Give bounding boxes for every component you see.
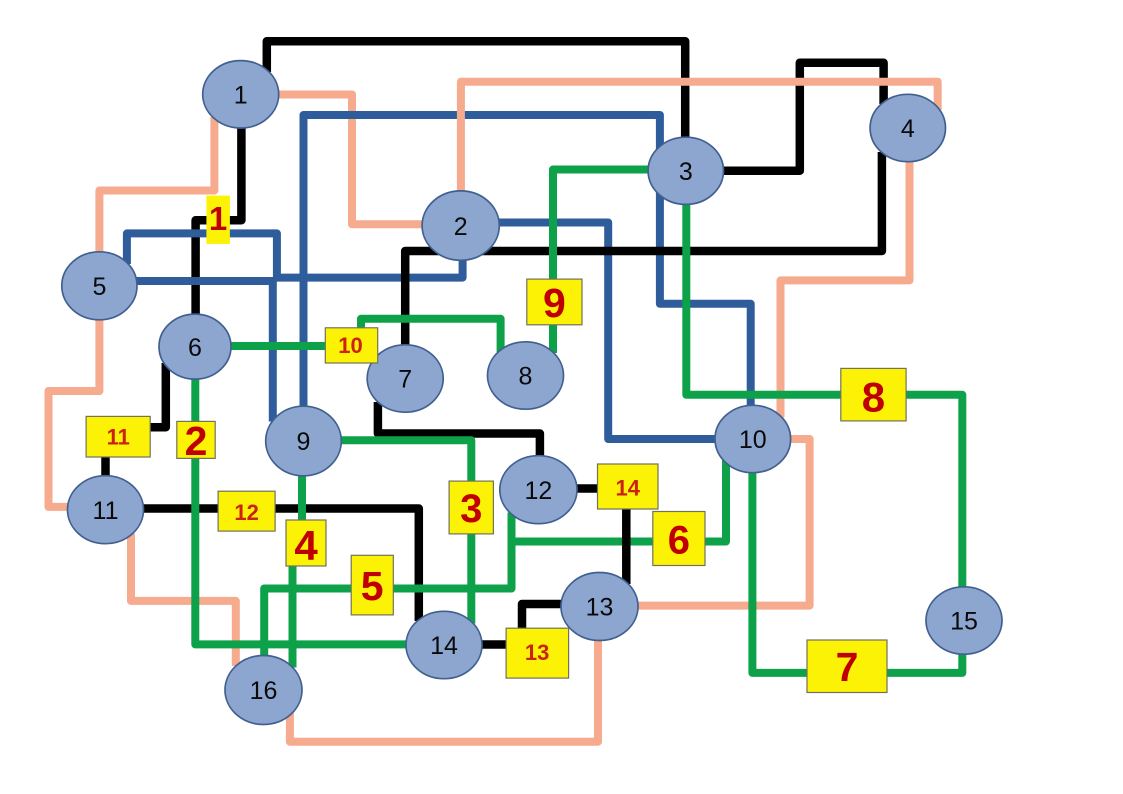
svg-text:10: 10 [338,333,362,358]
wire edge 10-15 green via label 7 [752,471,962,673]
wire edge 13-10 pink [637,439,810,606]
svg-text:9: 9 [543,280,566,326]
wire edge 6-11 black via label 11 [106,363,166,477]
label box 3 [449,481,493,534]
wire edge 12-10 green via label 6 [512,460,727,542]
label box 13 [506,628,568,678]
wire edge 7-12 black [378,402,540,458]
wire edge 16-13 pink [290,640,598,742]
wire edge 14-13 black via label 13 [481,604,563,645]
svg-text:7: 7 [398,366,412,394]
label box 5 [351,555,393,615]
svg-text:15: 15 [950,608,978,636]
svg-text:6: 6 [188,334,202,362]
label box 8 [841,368,906,421]
svg-text:12: 12 [524,477,552,505]
svg-text:10: 10 [739,426,767,454]
wire edge 2-10 blue [498,223,716,440]
wire edge 1-3 black [267,41,685,139]
label box 7 [807,640,887,693]
wire edge 11-14 black via label 12 [143,509,419,622]
svg-text:16: 16 [250,677,278,705]
wire edge 5-9 blue [136,281,273,422]
wire edge 3-4 black [724,63,884,171]
svg-text:4: 4 [901,115,915,143]
wire edge 11-16 pink [131,534,236,667]
node 9 [266,406,342,476]
svg-text:2: 2 [185,418,208,464]
node 16 [225,656,302,725]
wire edge 6-7 green via label 10 [230,342,376,350]
node 14 [406,611,482,678]
label box 6 [653,512,705,566]
svg-text:5: 5 [361,563,384,609]
wire edge 12-13 black via label 14 [575,489,626,585]
svg-text:14: 14 [430,632,458,660]
svg-text:1: 1 [234,82,248,110]
label box 10 [325,328,377,363]
wire edge 1-2 pink [278,95,424,225]
wire edge 9-14 green via label 3 [340,440,471,623]
wire edge 1-6 black via label 1 [196,126,242,316]
svg-text:12: 12 [234,500,258,525]
wire edge 5-2 blue [127,233,463,277]
svg-text:11: 11 [93,497,119,525]
wire edge 4-7 black [405,152,882,347]
node 7 [367,345,443,412]
node 5 [62,252,137,320]
node 13 [561,573,638,641]
node 3 [648,137,723,204]
svg-text:13: 13 [525,640,549,665]
svg-text:14: 14 [615,476,640,501]
wire edge 1-5 pink [99,117,214,253]
wire edge 16-12 green via label 5 [264,513,511,659]
label box 9 [527,279,582,326]
svg-text:8: 8 [862,374,885,421]
svg-text:1: 1 [209,200,227,237]
label box 11 [86,416,150,457]
label box 4 [286,520,326,569]
node 2 [422,191,499,260]
label box 2 [177,418,215,464]
svg-text:8: 8 [519,363,533,391]
node 12 [500,456,577,524]
label box 14 [598,464,659,509]
wire edge 9-10 blue [304,115,751,409]
wire edge 6-14 green via label 2 [195,377,408,645]
wire edge 9-16 green via label 4 [293,474,303,668]
wire edge 7-8 green [361,319,501,352]
label box 12 [218,491,275,531]
svg-text:3: 3 [679,158,693,186]
wire edge 2-4 pink [461,82,938,193]
node 1 [203,61,279,128]
svg-text:2: 2 [454,213,468,241]
node 8 [488,342,564,409]
svg-text:7: 7 [836,644,859,690]
wire edge 3-8 green via label 9 [553,170,650,354]
svg-text:4: 4 [294,522,318,569]
label box 1 [206,196,230,244]
wire edge 3-15 green via label 8 [686,202,962,589]
node 10 [715,405,791,472]
node 11 [68,476,144,544]
node 6 [159,314,231,379]
wire edge 5-11 pink [49,319,100,507]
svg-text:6: 6 [668,519,690,563]
svg-text:3: 3 [460,487,482,531]
svg-text:9: 9 [297,428,311,456]
node 4 [870,94,945,161]
svg-text:13: 13 [586,594,614,622]
node 15 [926,587,1002,654]
wire edge 10-4 pink [781,161,910,418]
svg-text:11: 11 [107,425,130,450]
svg-text:5: 5 [92,273,106,301]
